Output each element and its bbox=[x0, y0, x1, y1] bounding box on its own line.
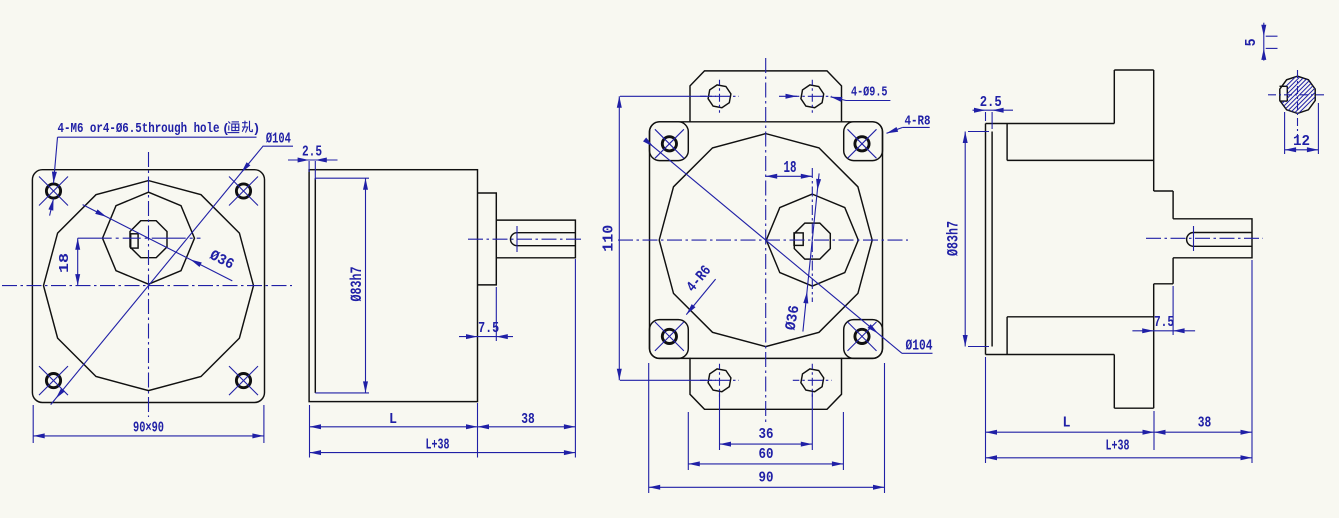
view4: flange face vertical lower bbox=[1153, 284, 1155, 408]
view4: output shaft outline bbox=[1173, 219, 1252, 258]
view1: hole cross top-left bbox=[39, 177, 68, 206]
view1: D36 arrow upper-left bbox=[95, 209, 106, 217]
view1: hand-drawn CJK glyph tong (through) bbox=[227, 122, 239, 133]
view2: dim 7.5 extension line bbox=[495, 287, 497, 341]
view1: hole cross top-right bbox=[229, 177, 258, 206]
view1: hole dia arrow below with tail bbox=[50, 199, 54, 216]
view2: dim L+38 line with arrows bbox=[310, 452, 576, 454]
view1: corner hole bottom-right bbox=[236, 374, 250, 388]
view3: outer register circle (12-gon) bbox=[659, 134, 872, 347]
view4: bottom extension line right bbox=[1251, 260, 1253, 463]
svg-text:38: 38 bbox=[1198, 415, 1212, 432]
view2: shaft center line bbox=[468, 238, 581, 240]
view3: corner ear top-left bbox=[650, 122, 689, 161]
view4: shaft center line bbox=[1146, 237, 1263, 239]
view4: keyway rounded end arc bbox=[1187, 233, 1194, 247]
view3: dim 110 line with arrows bbox=[618, 96, 620, 380]
detail: vertical center line bbox=[1297, 70, 1299, 136]
svg-text:4-R6: 4-R6 bbox=[683, 262, 715, 295]
view1: vertical center line bbox=[148, 152, 150, 417]
view1: dim 18 line with arrows bbox=[77, 238, 79, 285]
view3: tab hole bottom-right (D9.5) bbox=[801, 369, 824, 392]
view3: D104 label underline bbox=[902, 352, 933, 354]
view3: label 4-D9.5 underline bbox=[846, 100, 890, 102]
view4: top flange tab bbox=[1113, 70, 1115, 124]
view3: dim 60 line with arrows bbox=[688, 463, 843, 465]
view4: ear band bottom edge bbox=[1007, 316, 1154, 318]
view1: bore keyway notch bbox=[131, 234, 138, 248]
view4: dim L line with arrows bbox=[986, 431, 1155, 433]
view2: bottom extension line right bbox=[574, 259, 576, 458]
view3: tab hole top-left (D9.5) bbox=[708, 85, 731, 108]
view3: main body square bbox=[650, 122, 883, 359]
view2: register top extension line bbox=[315, 177, 369, 179]
view1: outer register circle (12-gon, D83) bbox=[44, 181, 254, 391]
view4: ear band top edge bbox=[1007, 159, 1154, 161]
view3: tab hole top-right (D9.5) bbox=[801, 85, 824, 108]
view4: dim 2.5 line with arrows bbox=[973, 109, 1014, 111]
view1: dim D36 diagonal line bbox=[83, 205, 233, 281]
detail: shaft cross-section circle (10-gon) bbox=[1280, 76, 1315, 113]
view3: boss vertical center line bbox=[811, 168, 813, 302]
view3: D36 arrow top bbox=[816, 179, 821, 191]
view4: keyway center tick bbox=[1193, 226, 1195, 251]
svg-text:7.5: 7.5 bbox=[478, 320, 499, 337]
svg-text:L: L bbox=[1063, 415, 1071, 432]
view3: hole cross bottom-left bbox=[655, 322, 684, 351]
svg-text:60: 60 bbox=[759, 446, 774, 463]
svg-text:Ø83h7: Ø83h7 bbox=[945, 221, 963, 256]
view3: corner ear bottom-left bbox=[650, 320, 689, 359]
view1: dim 90x90 extension line left bbox=[32, 405, 34, 443]
detail: horizontal center line bbox=[1268, 94, 1327, 96]
view3: tab hole center crosses bbox=[700, 95, 739, 97]
view4: dim 7.5 line with arrows bbox=[1132, 330, 1195, 332]
view2: dim D83h7 line with arrows bbox=[365, 178, 367, 393]
view3: D104 arrow lower-right bbox=[868, 324, 879, 333]
view3: dim D36 steep line bbox=[803, 173, 819, 331]
view4: bottom extension line left bbox=[985, 357, 987, 463]
view3: dim 18 line with arrows bbox=[766, 175, 813, 177]
svg-text:L: L bbox=[389, 411, 397, 428]
view1: dim 90x90 extension line right bbox=[263, 405, 265, 443]
view2: output boss (7.5 wide) bbox=[478, 193, 497, 285]
view3: dim 90 extension lines bbox=[648, 363, 650, 493]
svg-text:4-Ø9.5: 4-Ø9.5 bbox=[851, 86, 888, 101]
view1: leader underline for 4-M6 text bbox=[58, 136, 257, 138]
view4: dim D83h7 line with arrows bbox=[964, 132, 966, 347]
view3: label 4-R8 underline bbox=[903, 126, 930, 128]
view4: mounting face plate left edge bbox=[985, 124, 987, 355]
detail: dim 5 tick lines bbox=[1266, 35, 1278, 37]
view3: vertical center line bbox=[765, 58, 767, 425]
view4: dim D83h7 extension lines bbox=[968, 131, 989, 133]
svg-text:38: 38 bbox=[521, 411, 535, 428]
view3: dim 90 line with arrows bbox=[649, 486, 885, 488]
svg-text:18: 18 bbox=[784, 159, 797, 178]
view4: dim 7.5 extension line bbox=[1172, 286, 1174, 335]
view3: top mounting tab bbox=[690, 71, 842, 123]
view4: body top edge bbox=[986, 123, 1115, 125]
view3: dim 110 extension line bottom bbox=[620, 379, 716, 381]
view4: step vertical bottom bbox=[1006, 317, 1008, 355]
svg-text:2.5: 2.5 bbox=[302, 144, 322, 161]
view2: bottom extension line left bbox=[309, 405, 311, 458]
view3: D104 arrow upper-left bbox=[643, 138, 653, 147]
view3: corner ear top-right bbox=[844, 122, 883, 161]
view3: corner bolt hole top-left bbox=[662, 137, 676, 151]
view2: dim 2.5 extension lines bbox=[308, 161, 310, 172]
view1: boss horizontal center line / ext of dim 18 bbox=[78, 237, 201, 239]
svg-text:36: 36 bbox=[759, 426, 774, 443]
svg-text:2.5: 2.5 bbox=[980, 94, 1002, 111]
view3: dim D104 diagonal line bbox=[645, 140, 902, 353]
view2: gearbox body rectangle (side view) bbox=[309, 170, 477, 402]
view4: step vertical top bbox=[1006, 124, 1008, 161]
view3: corner bolt hole bottom-left bbox=[662, 329, 676, 343]
view3: dim 36 line with arrows bbox=[720, 443, 813, 445]
view2: dim 7.5 line with arrows bbox=[459, 336, 513, 338]
view2: dim 2.5 line with arrows bbox=[288, 159, 338, 161]
view3: bore (flat-top octagon) bbox=[794, 223, 830, 259]
view1: leader connector to top-left hole bbox=[54, 137, 58, 183]
svg-text:5: 5 bbox=[1243, 38, 1260, 46]
view1: D104 arrow lower-left bbox=[56, 388, 65, 399]
view3: hole cross bottom-right bbox=[848, 322, 877, 351]
svg-text:Ø104: Ø104 bbox=[266, 130, 291, 147]
detail: dim 5 arrows bbox=[1261, 25, 1266, 37]
svg-text:90×90: 90×90 bbox=[133, 420, 164, 437]
view3: label 4-R6 leader line bbox=[686, 279, 715, 315]
view1: horizontal center line bbox=[2, 285, 292, 287]
view3: hole cross top-left bbox=[655, 129, 684, 158]
view4: dim L+38 line with arrows bbox=[986, 457, 1253, 459]
view2: bottom extension line mid bbox=[477, 403, 479, 458]
view3: dim 60 extension lines bbox=[687, 412, 689, 470]
view2: dim L line with arrows bbox=[310, 426, 478, 428]
view1: corner hole top-right bbox=[236, 184, 250, 198]
view1: dim 90x90 line bbox=[33, 435, 264, 437]
svg-text:L+38: L+38 bbox=[1106, 438, 1130, 455]
svg-text:90: 90 bbox=[759, 469, 774, 486]
detail: dim 12 extension lines bbox=[1284, 112, 1286, 154]
view2: keyway rounded end arc bbox=[511, 233, 517, 246]
view3: dim 110 extension line top bbox=[620, 95, 716, 97]
view4: bottom flange tab bbox=[1113, 355, 1115, 409]
view1: dim D104 diagonal line bbox=[51, 146, 264, 405]
detail: dim 5 vertical line bbox=[1263, 23, 1265, 61]
view4: body bottom edge bbox=[986, 354, 1115, 356]
view1: D104 label underline bbox=[263, 145, 293, 147]
view4: dim 38 line with arrows bbox=[1154, 431, 1252, 433]
detail: dim 12 line with arrows bbox=[1285, 149, 1319, 151]
view3: boss circle D36 (octagon) bbox=[766, 194, 858, 286]
view3: bottom mounting tab bbox=[690, 358, 842, 410]
view3: D36 arrow bottom bbox=[803, 292, 808, 304]
view4: dim 2.5 extension lines bbox=[985, 112, 987, 121]
svg-text:Ø104: Ø104 bbox=[906, 337, 933, 354]
view2: dim 38 line with arrows bbox=[478, 426, 576, 428]
view3: hole cross top-right bbox=[848, 129, 877, 158]
view4: output boss bbox=[1154, 190, 1173, 192]
svg-text:Ø36: Ø36 bbox=[783, 304, 804, 332]
view1: hole dia arrow above bbox=[52, 172, 57, 184]
svg-text:Ø83h7: Ø83h7 bbox=[348, 267, 366, 302]
svg-text:L+38: L+38 bbox=[426, 436, 450, 453]
view3: dim 36 extension lines bbox=[719, 392, 721, 450]
view1: square mounting plate 90x90 outline bbox=[32, 170, 264, 403]
view1: corner hole top-left bbox=[46, 184, 60, 198]
svg-text:4-R8: 4-R8 bbox=[905, 114, 931, 129]
view2: shaft keyway slot lines bbox=[517, 232, 575, 234]
view3: label 4-D9.5 arrows at top-right tab hole bbox=[779, 95, 797, 97]
svg-text:110: 110 bbox=[601, 225, 618, 252]
view1: hand-drawn CJK glyph kong (hole) bbox=[242, 121, 252, 133]
detail: keyway flat bbox=[1280, 85, 1288, 87]
view3: label 4-R6 arrow bbox=[686, 304, 695, 315]
view3: tab hole bottom-left (D9.5) bbox=[708, 369, 731, 392]
svg-text:7.5: 7.5 bbox=[1154, 314, 1174, 331]
view3: bore keyway notch bbox=[794, 233, 803, 246]
view1: hole cross bottom-right bbox=[229, 366, 258, 395]
view3: corner ear bottom-right bbox=[844, 320, 883, 359]
view2: register bottom extension line bbox=[315, 392, 369, 394]
view3: corner bolt hole bottom-right bbox=[855, 329, 869, 343]
view1: input bore (flat-top octagon) bbox=[130, 221, 167, 258]
svg-text:): ) bbox=[253, 121, 261, 136]
svg-text:18: 18 bbox=[57, 253, 73, 273]
view1: D36 arrow lower-right bbox=[190, 260, 201, 268]
view2: keyway center tick bbox=[516, 226, 518, 252]
view4: shaft keyway slot lines bbox=[1194, 232, 1253, 234]
view4: register D83 edge line bbox=[991, 132, 993, 347]
detail: hatch lines bbox=[1273, 50, 1323, 140]
view3: corner bolt hole top-right bbox=[855, 137, 869, 151]
view4: bottom extension line mid bbox=[1153, 411, 1155, 450]
view1: D104 arrow upper-right bbox=[241, 162, 250, 172]
svg-text:12: 12 bbox=[1293, 133, 1310, 150]
view1: corner hole bottom-left bbox=[46, 374, 60, 388]
view4: flange face vertical upper bbox=[1153, 70, 1155, 191]
view3: horizontal center line bbox=[618, 239, 908, 241]
view2: output shaft outline bbox=[496, 220, 575, 258]
view1: hole cross bottom-left bbox=[39, 366, 68, 395]
svg-text:4-M6 or4-Ø6.5through hole: 4-M6 or4-Ø6.5through hole bbox=[58, 122, 220, 137]
view1: input boss circle D36 (octagon) bbox=[103, 192, 195, 284]
view3: label 4-R8 leader bbox=[887, 127, 903, 133]
view2: register D83 edge line bbox=[314, 178, 316, 393]
